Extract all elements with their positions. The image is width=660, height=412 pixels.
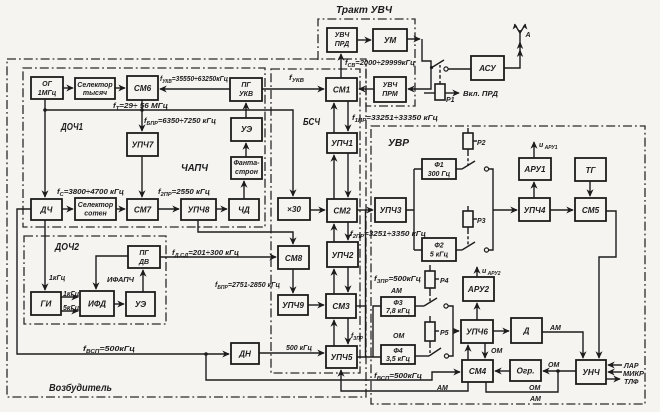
svg-text:УПЧ6: УПЧ6 — [466, 328, 488, 337]
block УПЧ8 — [181, 199, 216, 220]
block СМ8 — [278, 246, 309, 269]
wire УМ out to switch — [407, 38, 420, 40]
node junction УНЧ-Огр — [556, 369, 560, 373]
wire СМ4 up to УПЧ6 — [467, 345, 469, 360]
wire УПЧ7 down to СМ7 — [141, 156, 143, 197]
wire ИФД to УЭ — [114, 303, 124, 305]
dashed box Возбудитель — [7, 59, 366, 397]
svg-text:ГИ: ГИ — [41, 300, 53, 309]
block Фантастрон — [231, 157, 262, 179]
svg-text:АМ: АМ — [529, 396, 541, 403]
svg-text:УПЧ8: УПЧ8 — [188, 206, 210, 215]
block Д — [511, 318, 542, 343]
svg-text:ЧД: ЧД — [238, 206, 250, 215]
block ДЧ — [31, 199, 62, 220]
node junction fвсп — [204, 352, 208, 356]
block ОГ 1МГц — [31, 77, 63, 99]
wire СМ8 down to УПЧ9 — [292, 269, 294, 293]
svg-text:УПЧ3: УПЧ3 — [380, 206, 402, 215]
block ИФД — [80, 291, 114, 316]
wire УПЧ6 up to АРУ2 — [476, 303, 478, 320]
svg-text:300 Гц: 300 Гц — [428, 171, 451, 178]
block УПЧ5 — [326, 346, 357, 368]
wire ОГ to Селектор тысяч — [63, 87, 73, 89]
svg-text:5 кГц: 5 кГц — [430, 252, 449, 259]
block УПЧ9 — [278, 295, 308, 315]
svg-text:УПЧ5: УПЧ5 — [331, 353, 353, 362]
dashed box БСЧ — [271, 69, 360, 373]
wire ГИ to ИФД 1кГц — [61, 296, 78, 298]
svg-text:УПЧ9: УПЧ9 — [282, 301, 304, 310]
wire МИКР into УНЧ — [608, 371, 622, 373]
block УПЧ7 — [127, 133, 158, 156]
wire ОГ down to ДЧ — [44, 99, 46, 197]
wire switches to УПЧ6 — [448, 306, 459, 356]
wire УПЧ2 down to СМ3 — [347, 267, 349, 292]
wire ОМ feedback to СМ4 bottom — [486, 371, 558, 392]
svg-text:1МГц: 1МГц — [38, 90, 57, 97]
svg-text:ТГ: ТГ — [585, 166, 596, 175]
svg-text:Вкл. ПРД: Вкл. ПРД — [463, 91, 498, 98]
svg-text:Ф4: Ф4 — [393, 348, 402, 355]
wire УПЧ2 up to СМ2 — [333, 224, 335, 242]
wire УВЧ ПРД to УМ — [357, 39, 371, 41]
block УЭ (ЧАПЧ) — [231, 118, 262, 141]
wire СМ7 to УПЧ8 — [158, 208, 179, 210]
wire ТЛФ out of УНЧ — [606, 378, 620, 380]
switch Ф1 out — [456, 161, 489, 171]
dashed box УВР — [371, 126, 645, 404]
block УМ — [373, 29, 407, 51]
wire УПЧ1 up to СМ1 — [333, 103, 335, 133]
svg-text:БСЧ: БСЧ — [303, 116, 320, 128]
dashed box ДОЧ1/ЧАПЧ — [23, 68, 265, 227]
block СМ4 — [462, 360, 493, 382]
block СМ6 — [127, 76, 158, 100]
block АРУ2 — [463, 277, 494, 301]
wire УЭ up to ПГ УКВ — [245, 103, 247, 118]
svg-text:ДН: ДН — [238, 350, 252, 359]
wire УПЧ6 to Д — [493, 330, 509, 332]
svg-text:АМ: АМ — [436, 385, 448, 392]
wire СМ2 down to УПЧ2 — [347, 222, 349, 240]
relay Р4 — [425, 265, 449, 303]
wire УПЧ6 down to СМ4 ОМ — [484, 343, 486, 358]
svg-text:строн: строн — [235, 169, 259, 176]
svg-text:ОМ: ОМ — [491, 348, 502, 355]
svg-text:ОМ: ОМ — [529, 385, 540, 392]
svg-text:УВР: УВР — [388, 137, 410, 149]
svg-text:5кГц: 5кГц — [63, 305, 80, 312]
svg-text:ПРМ: ПРМ — [382, 91, 398, 98]
svg-text:ОМ: ОМ — [393, 333, 404, 340]
block СМ2 — [327, 199, 357, 222]
wire fт horizontal to х30 — [45, 110, 293, 196]
block ПГ УКВ — [230, 78, 262, 101]
svg-text:Ф2: Ф2 — [434, 243, 443, 250]
svg-text:Тракт УВЧ: Тракт УВЧ — [336, 4, 393, 16]
svg-text:СМ5: СМ5 — [582, 206, 600, 215]
svg-text:МИКР: МИКР — [623, 371, 644, 378]
switch antenna arm — [430, 60, 448, 71]
block УНЧ — [576, 360, 606, 384]
svg-text:500 кГц: 500 кГц — [286, 345, 312, 352]
relay Р2 — [463, 128, 486, 166]
wire УПЧ8 to ЧД — [216, 208, 227, 210]
wire branch down from СМ2 line to УПЧ5 line — [365, 210, 367, 357]
svg-text:Р1: Р1 — [446, 97, 455, 104]
relay Р5 — [425, 316, 449, 353]
wire СМ5 right down to УНЧ — [599, 211, 616, 358]
dashed box Тракт УВЧ — [318, 19, 415, 106]
svg-text:3,5 кГц: 3,5 кГц — [386, 356, 411, 363]
wire switch to АСУ — [448, 68, 471, 70]
svg-text:ИФАПЧ: ИФАПЧ — [107, 277, 135, 284]
svg-text:ПРД: ПРД — [335, 41, 350, 48]
wire ЛАР into УНЧ — [608, 364, 622, 366]
svg-text:АРУ2: АРУ2 — [467, 285, 490, 294]
block УЭ (ДОЧ2) — [126, 292, 155, 316]
wire ДН to УПЧ5 — [259, 352, 324, 354]
block СМ3 — [326, 294, 356, 318]
wire СМ3 down to УПЧ5 — [347, 318, 349, 344]
svg-text:Р2: Р2 — [477, 140, 486, 147]
svg-text:УПЧ1: УПЧ1 — [331, 139, 353, 148]
wire Селектор сотен to СМ7 — [116, 208, 125, 210]
wire Селектор тысяч to СМ6 — [115, 87, 125, 89]
svg-text:СМ3: СМ3 — [332, 302, 350, 311]
wire АРУ1 up uАРУ1 — [533, 142, 535, 158]
svg-text:А: А — [525, 32, 531, 39]
svg-text:АСУ: АСУ — [478, 64, 497, 73]
block ГИ — [31, 292, 61, 315]
svg-text:ОГ: ОГ — [42, 81, 52, 88]
wire УПЧ5 up to СМ3 — [333, 320, 335, 346]
block АРУ1 — [519, 158, 551, 180]
svg-text:тысяч: тысяч — [83, 90, 107, 97]
wire switches to УПЧ4 — [489, 169, 517, 250]
block СМ7 — [127, 199, 158, 220]
wire УВЧ ПРМ to СМ1 — [359, 88, 374, 90]
svg-text:1кГц: 1кГц — [49, 275, 66, 282]
wire СМ3 right to bypass — [356, 305, 366, 307]
svg-text:УПЧ4: УПЧ4 — [524, 206, 546, 215]
wire АРУ2 up uАРУ2 — [476, 267, 478, 277]
wire fвсп branch to СМ4 — [206, 354, 460, 380]
block АСУ — [471, 56, 504, 80]
block УВЧ ПРМ — [374, 77, 406, 102]
svg-text:ДОЧ2: ДОЧ2 — [54, 241, 79, 253]
svg-text:7,8 кГц: 7,8 кГц — [386, 308, 411, 315]
block СМ5 — [575, 198, 606, 221]
svg-text:ИФД: ИФД — [88, 300, 106, 309]
wire УПЧ4 to СМ5 — [550, 209, 573, 211]
wire ГИ to ИФД 5кГц — [61, 310, 78, 312]
svg-text:СМ7: СМ7 — [134, 206, 152, 215]
wire СМ2 up to УПЧ1 — [333, 155, 335, 199]
svg-text:АМ: АМ — [390, 288, 402, 295]
wire СМ6 down to УПЧ7 — [141, 100, 143, 131]
block ТГ — [575, 158, 606, 181]
svg-text:ОМ: ОМ — [548, 362, 559, 369]
svg-text:ПГ: ПГ — [139, 250, 149, 257]
svg-text:СМ8: СМ8 — [285, 254, 303, 263]
block УПЧ2 — [327, 242, 358, 267]
svg-text:СМ6: СМ6 — [134, 84, 152, 93]
wire АСУ to antenna — [504, 56, 520, 68]
svg-text:ДЧ: ДЧ — [40, 206, 53, 215]
node junction ОГ line — [43, 108, 47, 112]
wire СМ1 up to УВЧ ПРД — [340, 54, 342, 78]
svg-text:СМ1: СМ1 — [333, 86, 351, 95]
block УПЧ3 — [375, 198, 406, 222]
wire ПГ ДВ to СМ8 — [160, 256, 276, 258]
wire УПЧ8 down right to СМ8 — [198, 220, 293, 244]
svg-text:×30: ×30 — [287, 205, 301, 214]
block УВЧ ПРД — [327, 28, 357, 52]
svg-text:Селектор: Селектор — [77, 82, 113, 89]
block х30 — [278, 198, 310, 220]
svg-text:Д: Д — [523, 327, 530, 336]
relay Р3 — [463, 206, 486, 246]
svg-text:Р3: Р3 — [477, 218, 486, 225]
block ПГ ДВ — [128, 246, 160, 268]
wire ЧД up to Фантастрон — [243, 181, 245, 199]
svg-text:Огр.: Огр. — [516, 367, 534, 376]
svg-text:Ф3: Ф3 — [393, 300, 402, 307]
wire switch pole down — [422, 39, 431, 68]
svg-text:УПЧ7: УПЧ7 — [132, 141, 154, 150]
block Селектор тысяч — [75, 78, 115, 99]
svg-text:ЛАР: ЛАР — [623, 363, 639, 370]
relay Р1 — [424, 65, 459, 104]
wire ПГ УКВ to СМ6 — [160, 88, 230, 90]
wire ПГ ДВ to ИФД — [96, 256, 128, 289]
wire Фантастрон up to УЭ — [245, 143, 247, 157]
block СМ1 — [326, 78, 357, 101]
block ДН — [231, 343, 259, 364]
svg-text:УВЧ: УВЧ — [383, 82, 399, 89]
block УПЧ4 — [519, 198, 550, 221]
wire УПЧ4 up to АРУ1 — [533, 182, 535, 198]
wire УПЧ5 to Ф4 — [357, 356, 381, 358]
svg-text:ПГ: ПГ — [241, 82, 251, 89]
wire Д to УНЧ АМ — [542, 332, 583, 358]
svg-text:УЭ: УЭ — [241, 125, 252, 134]
svg-text:Ф1: Ф1 — [434, 162, 443, 169]
svg-text:Р5: Р5 — [440, 330, 449, 337]
svg-text:УМ: УМ — [384, 36, 397, 45]
svg-text:УЭ: УЭ — [135, 300, 146, 309]
wire Огр to СМ4 — [495, 370, 510, 372]
block ЧД — [229, 199, 259, 220]
svg-text:Селектор: Селектор — [78, 202, 114, 209]
svg-text:УНЧ: УНЧ — [582, 368, 599, 377]
wire х30 to СМ2 — [310, 209, 325, 211]
block Селектор сотен — [75, 198, 116, 220]
block Ф4 3,5кГц — [381, 345, 415, 364]
svg-text:ЧАПЧ: ЧАПЧ — [181, 162, 209, 174]
svg-text:УВЧ: УВЧ — [335, 32, 351, 39]
wire branch up to Ф3 — [373, 306, 381, 357]
svg-text:СМ2: СМ2 — [333, 207, 351, 216]
wire ПГ УКВ to СМ1 — [262, 88, 324, 90]
switch Ф2 out — [456, 242, 489, 252]
svg-text:СМ4: СМ4 — [469, 367, 487, 376]
wire switch pole to УВЧ ПРМ — [408, 68, 431, 89]
svg-text:Фанта-: Фанта- — [233, 160, 260, 167]
svg-text:Возбудитель: Возбудитель — [49, 382, 112, 394]
wire УПЧ9 to СМ3 — [308, 304, 324, 306]
antenna А — [513, 24, 528, 57]
dashed box ДОЧ2 — [24, 236, 166, 324]
svg-text:ТЛФ: ТЛФ — [624, 379, 639, 386]
wire СМ3 up to УПЧ2 — [333, 269, 335, 294]
svg-text:АМ: АМ — [549, 325, 561, 332]
wire УЭ up to ПГ ДВ — [142, 270, 144, 292]
wire УНЧ to Огр — [543, 370, 576, 372]
wire ДЧ down to ГИ — [44, 220, 46, 290]
switch Ф4 out — [415, 348, 449, 358]
wire СМ1 down to УПЧ1 — [347, 101, 349, 131]
block УПЧ1 — [327, 133, 357, 153]
svg-text:ДОЧ1: ДОЧ1 — [60, 121, 83, 133]
svg-text:УПЧ2: УПЧ2 — [332, 251, 354, 260]
wire ДЧ left down fвсп to ДН — [17, 209, 229, 354]
svg-text:ДВ: ДВ — [138, 259, 149, 266]
svg-text:УКВ: УКВ — [239, 91, 253, 98]
svg-text:АРУ1: АРУ1 — [523, 165, 546, 174]
svg-text:1кГц: 1кГц — [63, 291, 80, 298]
block Огр. — [510, 360, 541, 381]
wire АМ feedback СМ4 to УПЧ5 — [341, 370, 468, 391]
block Ф1 300Гц — [422, 159, 456, 179]
node junction СМ6 line — [140, 108, 144, 112]
block Ф2 5кГц — [422, 238, 456, 261]
svg-text:сотен: сотен — [84, 211, 107, 218]
wire ДЧ to Селектор сотен — [62, 208, 73, 210]
wire УПЧ3 to Ф1 Ф2 split — [406, 169, 422, 250]
block Ф3 7,8кГц — [381, 297, 415, 316]
wire ТГ down to СМ5 — [589, 181, 591, 196]
svg-text:Р4: Р4 — [440, 278, 449, 285]
wire СМ2 to УПЧ3 — [357, 209, 373, 211]
switch Ф3 out — [415, 298, 448, 308]
block УПЧ6 — [461, 320, 493, 343]
wire УПЧ1 down to СМ2 — [347, 153, 349, 197]
